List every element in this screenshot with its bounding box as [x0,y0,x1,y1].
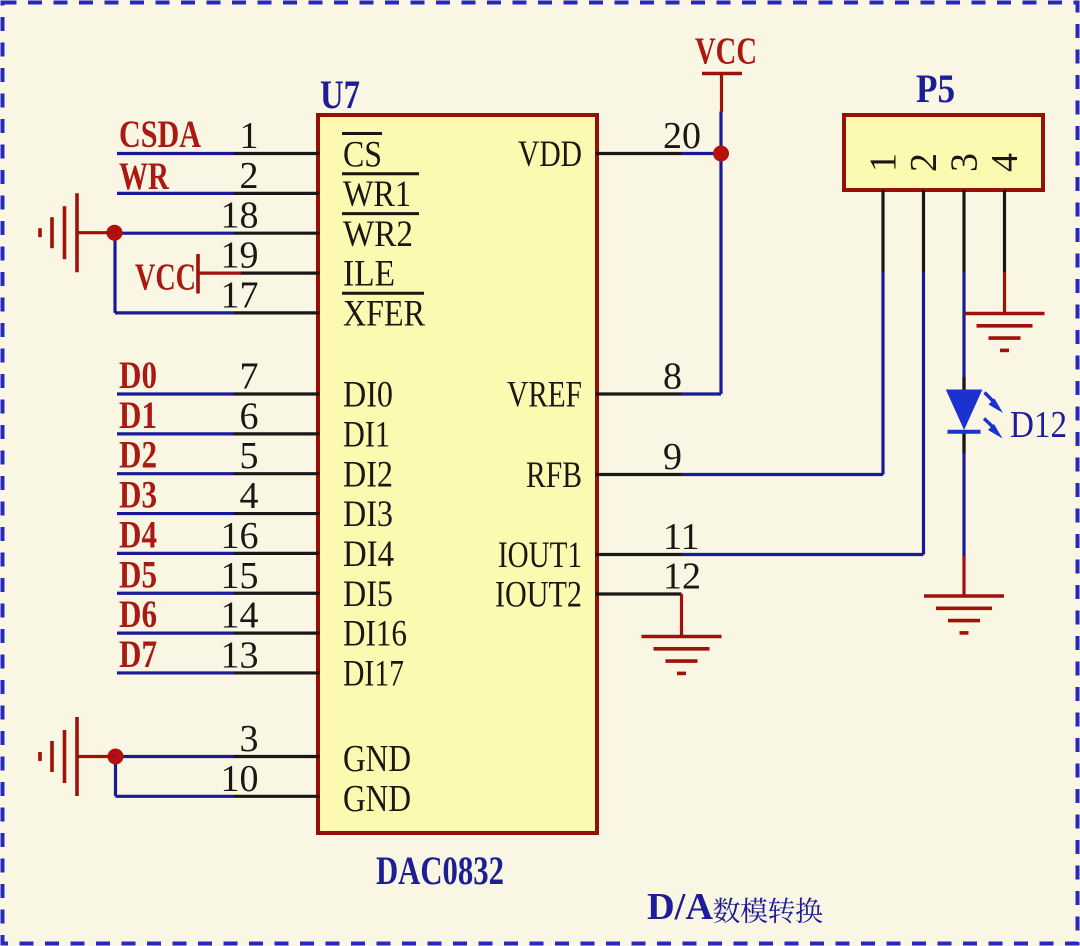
wire net D6 [117,631,234,634]
svg-text:DI5: DI5 [343,574,393,615]
LED D12 cathode pin [962,434,965,453]
title char 数 [713,898,739,924]
svg-text:7: 7 [240,356,259,398]
junction lower-left gnd node [108,749,124,765]
wire net D4 [117,552,234,555]
ground lower-left [77,755,117,758]
svg-text:3: 3 [240,718,259,760]
wire P5 pin3 to LED anode [962,272,965,390]
svg-text:6: 6 [240,395,259,437]
svg-text:12: 12 [663,556,701,598]
wire VDD to VCC junction [682,152,722,155]
svg-text:WR2: WR2 [343,214,413,255]
LED D12 cathode bar [948,430,981,434]
title char 转 [769,897,795,923]
LED D12 triangle [946,390,983,431]
svg-text:WR1: WR1 [343,174,411,215]
wire to pin10 GND [116,795,235,798]
connector pin 1 stub [881,190,884,272]
IC U7 DAC0832 body [318,115,597,833]
svg-text:U7: U7 [320,72,360,117]
pin 6 stub [234,432,320,435]
wire net D1 [117,432,234,435]
svg-text:ILE: ILE [343,254,395,295]
svg-text:VREF: VREF [507,375,582,416]
wire RFB up to P5 pin1 [881,272,884,475]
svg-text:15: 15 [221,555,259,597]
svg-text:D1: D1 [119,394,157,437]
wire RFB horizontal [682,473,884,476]
svg-text:CS: CS [343,135,382,176]
svg-text:D12: D12 [1010,404,1067,446]
wire VCC vertical [719,112,722,395]
svg-text:WR: WR [119,155,170,198]
svg-text:8: 8 [663,356,682,398]
svg-text:3: 3 [944,153,986,172]
pin 10 stub [234,795,320,798]
svg-text:10: 10 [221,758,259,800]
svg-text:4: 4 [240,475,259,517]
pin 1 stub [234,152,320,155]
pin 3 stub [234,755,320,758]
svg-text:19: 19 [221,235,259,277]
wire LED cathode down [962,433,965,556]
svg-text:D0: D0 [119,354,157,397]
pin 19 stub [240,272,320,275]
pin 8 stub [596,392,682,395]
wire to pin17 XFER [115,311,234,314]
svg-text:9: 9 [663,436,682,478]
pin 20 stub [596,152,682,155]
svg-text:DI2: DI2 [343,454,393,495]
wire gnd down to pin10 row [114,757,117,797]
wire gnd down to pin17 row [113,233,116,313]
svg-text:D4: D4 [119,513,157,556]
svg-text:D3: D3 [119,474,157,517]
ground IOUT2 [680,594,683,637]
title char 模 [741,898,768,924]
svg-text:D2: D2 [119,434,157,477]
svg-text:17: 17 [221,274,259,316]
wire to pin8 VREF [682,392,722,395]
svg-text:VDD: VDD [518,134,582,175]
svg-text:2: 2 [240,155,259,197]
wire gnd to pin3 [120,755,234,758]
connector pin 2 stub [922,190,925,272]
svg-text:16: 16 [221,515,259,557]
svg-text:D/A: D/A [647,886,714,928]
wire IOUT1 horizontal [682,553,924,556]
ground below LED [962,556,965,597]
svg-text:D5: D5 [119,553,157,596]
svg-text:DI3: DI3 [343,494,393,535]
LED D12 light arrow 1 [985,393,1004,414]
wire net D5 [117,592,234,595]
svg-text:DI4: DI4 [343,534,394,575]
ground P5 pin4 [1003,272,1006,314]
wire net WR [117,192,234,195]
svg-text:DI17: DI17 [343,654,404,695]
svg-text:1: 1 [863,153,905,172]
svg-text:P5: P5 [916,66,955,111]
svg-text:CSDA: CSDA [119,113,201,156]
pin 12 stub [596,592,682,595]
svg-text:18: 18 [221,195,259,237]
svg-text:11: 11 [663,516,700,558]
wire IOUT1 up to P5 pin2 [922,272,925,555]
svg-text:IOUT1: IOUT1 [498,535,582,576]
svg-text:RFB: RFB [526,455,582,496]
pin 5 stub [234,472,320,475]
pin 14 stub [234,631,320,634]
svg-text:2: 2 [903,153,945,172]
svg-text:DI1: DI1 [343,414,390,455]
svg-text:4: 4 [984,153,1026,172]
wire net D2 [117,472,234,475]
svg-text:IOUT2: IOUT2 [495,575,582,616]
svg-text:VCC: VCC [135,257,196,299]
connector pin 3 stub [962,190,965,272]
pin 16 stub [234,552,320,555]
pin 7 stub [234,392,320,395]
pin 18 stub [234,232,320,235]
junction VCC/VDD node [713,146,729,162]
title char 换 [796,897,822,923]
wire gnd to pin18 [120,232,234,235]
svg-text:DI16: DI16 [343,614,407,655]
pin 15 stub [234,592,320,595]
svg-text:VCC: VCC [695,31,757,73]
svg-text:D7: D7 [119,633,157,676]
wire net D0 [117,392,234,395]
svg-text:DI0: DI0 [343,375,393,416]
svg-text:5: 5 [240,435,259,477]
pin 4 stub [234,512,320,515]
LED D12 anode pin [962,377,965,390]
connector pin 4 stub [1003,190,1006,272]
pin 17 stub [234,311,320,314]
pin 11 stub [596,553,682,556]
svg-text:1: 1 [240,115,259,157]
svg-text:D6: D6 [119,593,157,636]
wire net D3 [117,512,234,515]
pin 13 stub [234,671,320,674]
wire net D7 [117,671,234,674]
svg-text:14: 14 [221,595,259,637]
pin 2 stub [234,192,320,195]
svg-text:13: 13 [221,634,259,676]
ground upper-left [77,231,117,234]
svg-text:XFER: XFER [343,294,425,335]
svg-text:20: 20 [663,115,701,157]
junction upper-left gnd node [107,225,123,241]
wire net CSDA [117,152,234,155]
svg-text:GND: GND [343,778,411,820]
svg-text:GND: GND [343,738,411,780]
pin 9 stub [596,473,682,476]
svg-text:DAC0832: DAC0832 [376,848,504,893]
connector P5 body [844,115,1043,190]
LED D12 light arrow 2 [984,419,1003,439]
